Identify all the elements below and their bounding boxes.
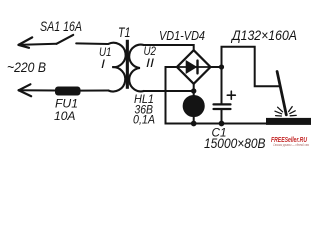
svg-text:Своими руками — сделай сам: Своими руками — сделай сам bbox=[273, 143, 310, 147]
diode symbol inside bridge bbox=[179, 61, 209, 74]
wire: bridge plus (right corner) to step and electrode bbox=[211, 47, 281, 86]
arc sparks bbox=[275, 107, 296, 116]
wire: secondary top to bridge top corner bbox=[144, 45, 194, 51]
junction: secondary bottom node bbox=[191, 88, 196, 93]
capacitor plus sign bbox=[227, 91, 235, 99]
wire: bridge minus (left corner) down to bottom rail bbox=[166, 67, 267, 124]
fuse FU1 body bbox=[56, 87, 81, 95]
capacitor C1 bottom lead bbox=[221, 110, 223, 124]
svg-text:~220 В: ~220 В bbox=[7, 60, 46, 75]
wire: switch to transformer primary bbox=[76, 42, 107, 45]
lamp HL1 bbox=[183, 96, 204, 117]
transformer T1 core bbox=[126, 40, 129, 89]
junction: capacitor to rail bbox=[219, 121, 225, 127]
svg-text:II: II bbox=[146, 56, 155, 70]
junction: lamp to rail bbox=[191, 121, 197, 127]
capacitor C1 plates bbox=[214, 104, 231, 109]
wire: bridge bottom to lamp bbox=[193, 84, 195, 96]
wire: lamp to bottom rail bbox=[193, 117, 195, 124]
svg-text:T1: T1 bbox=[118, 25, 131, 40]
wire: top mains lead with arrow bbox=[19, 37, 57, 47]
switch SA1 lever bbox=[57, 35, 74, 44]
workpiece bar bbox=[266, 118, 311, 125]
svg-text:0,1А: 0,1А bbox=[133, 113, 155, 127]
svg-text:15000×80В: 15000×80В bbox=[204, 136, 266, 151]
capacitor C1 top lead bbox=[221, 67, 223, 103]
svg-text:SA1 16A: SA1 16A bbox=[40, 19, 82, 34]
transformer T1 secondary winding U2 bbox=[129, 45, 144, 92]
junction: plus node bbox=[219, 64, 224, 69]
transformer T1 primary winding U1 bbox=[108, 43, 125, 92]
svg-text:Д132×160А: Д132×160А bbox=[230, 28, 297, 43]
wire: bottom mains lead with arrow bbox=[19, 84, 56, 96]
bridge rectifier VD1-VD4 diamond bbox=[177, 50, 211, 84]
svg-text:10A: 10A bbox=[54, 109, 76, 123]
wire: secondary bottom to lamp node bbox=[144, 90, 194, 92]
wire: fuse to transformer primary bbox=[80, 90, 108, 92]
welding electrode bbox=[277, 72, 286, 115]
svg-text:VD1-VD4: VD1-VD4 bbox=[159, 28, 205, 43]
